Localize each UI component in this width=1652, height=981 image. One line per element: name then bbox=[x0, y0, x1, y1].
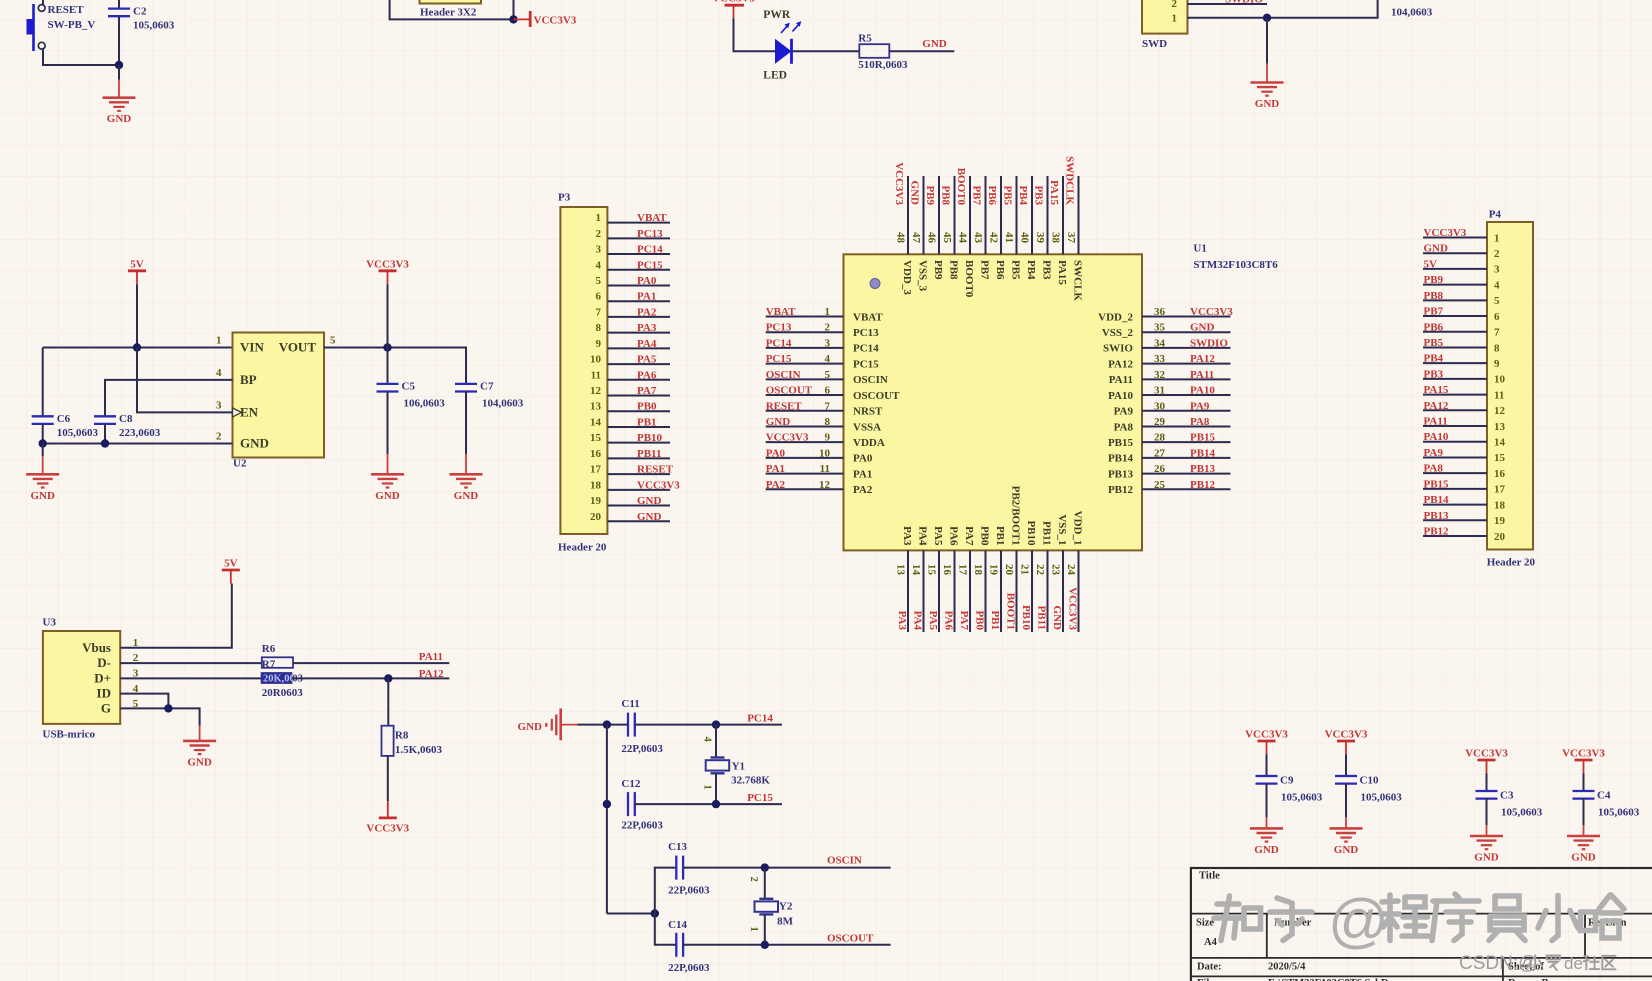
power VCC3V3 above C4 bbox=[1562, 748, 1605, 774]
svg-text:PA15: PA15 bbox=[1048, 180, 1060, 205]
svg-text:19: 19 bbox=[1494, 515, 1506, 527]
svg-text:de: de bbox=[1564, 954, 1583, 973]
svg-text:2020/5/4: 2020/5/4 bbox=[1268, 962, 1306, 973]
svg-text:22: 22 bbox=[1034, 564, 1046, 576]
svg-text:GND: GND bbox=[766, 416, 791, 428]
svg-text:105,0603: 105,0603 bbox=[1598, 806, 1640, 818]
U1 pin 4 PC15 wire + net label PC15 bbox=[766, 353, 879, 370]
svg-text:13: 13 bbox=[1494, 421, 1506, 433]
U1 pin 28 PB15 wire + net label PB15 bbox=[1108, 432, 1231, 449]
ground GND below USB bbox=[183, 726, 216, 769]
svg-text:PA11: PA11 bbox=[419, 651, 443, 663]
U1 pin 14 PA4 wire + net label PA4 bbox=[910, 526, 928, 632]
svg-text:Header 20: Header 20 bbox=[1487, 557, 1536, 569]
P3 pin 3 wire + net label PC14 bbox=[596, 244, 671, 256]
svg-text:PA11: PA11 bbox=[1109, 374, 1133, 386]
P3 pin 14 wire + net label PB1 bbox=[590, 416, 670, 428]
wire U3 ID to G bbox=[120, 694, 168, 709]
svg-text:PB2/BOOT1: PB2/BOOT1 bbox=[1010, 486, 1022, 546]
svg-text:VCC3V3: VCC3V3 bbox=[1465, 748, 1508, 760]
P4 pin 8 wire + net label PB5 bbox=[1423, 337, 1500, 354]
wire Header3X2 pin to VCC3V3 bbox=[390, 0, 514, 19]
U1 pin 47 VSS_3 wire + net label GND bbox=[909, 176, 929, 292]
svg-text:GND: GND bbox=[187, 756, 212, 768]
svg-text:C14: C14 bbox=[668, 919, 687, 931]
wire U3 G to GND bbox=[120, 708, 199, 725]
svg-text:17: 17 bbox=[590, 464, 602, 476]
svg-text:PA6: PA6 bbox=[948, 526, 960, 546]
P3 pin 9 wire + net label PA4 bbox=[596, 338, 671, 350]
node junction C2/switch bbox=[115, 61, 123, 69]
wire R7 to net PA12 bbox=[292, 677, 450, 679]
U1 pin 44 BOOT0 wire + net label BOOT0 bbox=[955, 168, 975, 298]
ground GND below C6 bbox=[26, 444, 59, 502]
U1 pin 6 OSCOUT wire + net label OSCOUT bbox=[766, 385, 900, 402]
capacitor C5 106,0603 bbox=[377, 348, 446, 455]
wire U3 D- to R6 bbox=[120, 662, 262, 664]
svg-text:VCC3V3: VCC3V3 bbox=[534, 15, 577, 27]
P4 pin 17 wire + net label PB15 bbox=[1423, 478, 1506, 495]
svg-text:OSCIN: OSCIN bbox=[827, 855, 862, 867]
node junction C12 left bbox=[603, 800, 611, 808]
net label PA11 bbox=[419, 651, 443, 663]
svg-text:45: 45 bbox=[941, 232, 953, 244]
svg-text:VOUT: VOUT bbox=[279, 340, 317, 355]
svg-text:VCC3V3: VCC3V3 bbox=[712, 0, 755, 5]
svg-text:9: 9 bbox=[825, 432, 831, 444]
U1 pin 20 PB2/BOOT1 wire + net label BOOT1 bbox=[1003, 486, 1021, 632]
svg-text:4: 4 bbox=[702, 737, 713, 743]
svg-text:20: 20 bbox=[1003, 564, 1015, 576]
svg-text:44: 44 bbox=[957, 232, 969, 244]
power VCC3V3 (right-pointing port) bbox=[514, 11, 577, 27]
wire RESET switch top pin bbox=[42, 0, 44, 5]
svg-text:D-: D- bbox=[97, 655, 111, 670]
svg-text:4: 4 bbox=[596, 259, 602, 271]
svg-text:GND: GND bbox=[454, 490, 479, 502]
svg-text:PB9: PB9 bbox=[932, 260, 944, 280]
svg-text:20: 20 bbox=[1494, 531, 1506, 543]
svg-text:R5: R5 bbox=[858, 33, 872, 45]
power VCC3V3 (USB pull-up, down-pointing) bbox=[366, 801, 409, 835]
svg-text:5: 5 bbox=[825, 369, 831, 381]
svg-text:OSCOUT: OSCOUT bbox=[766, 385, 813, 397]
P3 pin 16 wire + net label PB11 bbox=[590, 448, 670, 460]
svg-text:PB5: PB5 bbox=[1010, 260, 1022, 280]
svg-text:@: @ bbox=[1328, 887, 1389, 954]
svg-text:PA9: PA9 bbox=[1424, 447, 1444, 459]
U1 pin 3 PC14 wire + net label PC14 bbox=[766, 337, 879, 354]
svg-text:PB10: PB10 bbox=[1020, 605, 1032, 631]
svg-text:9: 9 bbox=[596, 338, 602, 350]
svg-text:GND: GND bbox=[1255, 98, 1280, 110]
svg-text:OSCOUT: OSCOUT bbox=[827, 933, 874, 945]
svg-text:PB10: PB10 bbox=[1025, 520, 1037, 546]
wire C14 branch bbox=[655, 914, 677, 945]
U1 pin 32 PA11 wire + net label PA11 bbox=[1109, 369, 1231, 386]
U1 pin 34 SWIO wire + net label SWDIO bbox=[1103, 337, 1230, 354]
U1 pin 38 PA15 wire + net label PA15 bbox=[1048, 176, 1068, 285]
svg-text:GND: GND bbox=[1424, 243, 1449, 255]
P3 pin 5 wire + net label PA0 bbox=[596, 275, 671, 287]
connector SWD header (clipped at top) bbox=[1142, 0, 1188, 50]
svg-text:PB12: PB12 bbox=[1108, 484, 1134, 496]
svg-text:PB6: PB6 bbox=[986, 185, 998, 205]
svg-text:PB4: PB4 bbox=[1017, 185, 1029, 205]
svg-text:PB10: PB10 bbox=[637, 432, 663, 444]
capacitor C10 105,0603 bbox=[1335, 755, 1402, 818]
node junction header/VCC3V3 bbox=[509, 15, 517, 23]
U1 pin 1 VBAT wire + net label VBAT bbox=[766, 306, 884, 323]
svg-text:PA4: PA4 bbox=[637, 338, 657, 350]
svg-text:PB7: PB7 bbox=[979, 260, 991, 280]
U3 pin number 5 bbox=[133, 698, 139, 710]
svg-text:GND: GND bbox=[1474, 852, 1499, 864]
svg-text:VCC3V3: VCC3V3 bbox=[366, 258, 409, 270]
power 5V (USB Vbus) bbox=[222, 558, 240, 584]
svg-text:PB1: PB1 bbox=[994, 526, 1006, 546]
svg-text:STM32F103C8T6: STM32F103C8T6 bbox=[1193, 259, 1278, 271]
svg-text:PB8: PB8 bbox=[940, 185, 952, 205]
ground GND below C4 bbox=[1567, 825, 1600, 864]
U1 pin 36 VDD_2 wire + net label VCC3V3 bbox=[1098, 306, 1233, 323]
svg-text:1: 1 bbox=[825, 306, 831, 318]
svg-text:Date:: Date: bbox=[1197, 962, 1222, 973]
resistor R6 bbox=[262, 643, 293, 671]
svg-text:PA0: PA0 bbox=[853, 453, 873, 465]
svg-text:22P,0603: 22P,0603 bbox=[621, 820, 663, 832]
svg-text:VBAT: VBAT bbox=[766, 306, 796, 318]
LED D1 PWR bbox=[763, 9, 801, 82]
svg-text:PA2: PA2 bbox=[766, 479, 786, 491]
U1 pin 45 PB8 wire + net label PB8 bbox=[940, 176, 960, 280]
U1 pin 17 PA7 wire + net label PA7 bbox=[957, 526, 975, 632]
svg-text:PA9: PA9 bbox=[1114, 406, 1134, 418]
svg-text:PA7: PA7 bbox=[637, 385, 657, 397]
svg-text:VCC3V3: VCC3V3 bbox=[893, 162, 905, 205]
svg-text:C12: C12 bbox=[621, 778, 640, 790]
svg-text:17: 17 bbox=[957, 564, 969, 576]
svg-text:24: 24 bbox=[1065, 564, 1077, 576]
svg-text:7: 7 bbox=[825, 400, 831, 412]
capacitor C3 105,0603 bbox=[1476, 774, 1543, 826]
svg-text:PB7: PB7 bbox=[1424, 306, 1444, 318]
U1 pin-1 marker bbox=[870, 279, 880, 289]
svg-text:GND: GND bbox=[1334, 844, 1359, 856]
svg-text:11: 11 bbox=[1494, 389, 1504, 401]
svg-text:C6: C6 bbox=[57, 413, 71, 425]
power VCC3V3 above C9 bbox=[1245, 729, 1288, 755]
svg-text:GND: GND bbox=[30, 490, 55, 502]
svg-text:GND: GND bbox=[637, 511, 662, 523]
connector P4 Header 20 bbox=[1487, 209, 1536, 569]
U1 pin 48 VDD_3 wire + net label VCC3V3 bbox=[893, 162, 913, 295]
svg-text:PB12: PB12 bbox=[1190, 479, 1216, 491]
svg-text:46: 46 bbox=[926, 232, 938, 244]
svg-text:OSCIN: OSCIN bbox=[853, 374, 888, 386]
svg-text:PC14: PC14 bbox=[853, 343, 879, 355]
svg-text:Y1: Y1 bbox=[732, 760, 745, 772]
svg-text:Vbus: Vbus bbox=[82, 640, 111, 655]
ground GND below C10 bbox=[1330, 817, 1363, 856]
node junction C13/Y2 bbox=[761, 863, 769, 871]
svg-text:5V: 5V bbox=[130, 258, 144, 270]
svg-text:PB0: PB0 bbox=[637, 401, 657, 413]
wire C13 branch bbox=[655, 868, 677, 914]
P4 pin 16 wire + net label PA8 bbox=[1423, 463, 1506, 480]
svg-text:PB14: PB14 bbox=[1424, 494, 1450, 506]
net label PA12 bbox=[419, 668, 444, 680]
svg-text:26: 26 bbox=[1154, 463, 1166, 475]
P4 pin 5 wire + net label PB8 bbox=[1423, 290, 1500, 307]
svg-text:PA9: PA9 bbox=[1190, 400, 1210, 412]
capacitor C7 104,0603 bbox=[455, 380, 524, 454]
svg-text:PB6: PB6 bbox=[1424, 321, 1444, 333]
svg-text:VDD_1: VDD_1 bbox=[1072, 511, 1084, 546]
U1 pin 41 PB5 wire + net label PB5 bbox=[1002, 176, 1022, 280]
svg-text:PA1: PA1 bbox=[637, 291, 656, 303]
svg-text:PC14: PC14 bbox=[747, 713, 773, 725]
svg-text:P4: P4 bbox=[1489, 209, 1502, 221]
U1 pin 2 PC13 wire + net label PC13 bbox=[766, 322, 879, 339]
svg-text:5: 5 bbox=[596, 275, 602, 287]
svg-text:2: 2 bbox=[825, 322, 831, 334]
svg-text:32: 32 bbox=[1154, 369, 1166, 381]
svg-text:PA3: PA3 bbox=[637, 322, 657, 334]
svg-text:17: 17 bbox=[1494, 484, 1506, 496]
svg-text:PC15: PC15 bbox=[853, 358, 879, 370]
U3 pin number 1 bbox=[133, 637, 139, 649]
net label GND (PWR LED) bbox=[922, 38, 947, 50]
svg-text:PC15: PC15 bbox=[747, 792, 773, 804]
U1 pin 24 VDD_1 wire + net label VCC3V3 bbox=[1065, 511, 1083, 632]
svg-text:PA3: PA3 bbox=[901, 526, 913, 546]
svg-text:GND: GND bbox=[1051, 606, 1063, 631]
svg-text:PA10: PA10 bbox=[1108, 390, 1133, 402]
U1 pin 13 PA3 wire + net label PA3 bbox=[895, 526, 913, 632]
svg-text:PA7: PA7 bbox=[958, 611, 970, 631]
svg-text:36: 36 bbox=[1154, 306, 1166, 318]
svg-text:18: 18 bbox=[1494, 499, 1506, 511]
svg-text:GND: GND bbox=[922, 38, 947, 50]
svg-text:SWIO: SWIO bbox=[1103, 343, 1133, 355]
svg-text:G: G bbox=[101, 701, 111, 716]
wire U2 VOUT rail bbox=[324, 348, 466, 384]
svg-text:PA6: PA6 bbox=[637, 369, 657, 381]
svg-text:2: 2 bbox=[596, 228, 602, 240]
svg-text:16: 16 bbox=[590, 448, 602, 460]
net label OSCOUT bbox=[827, 933, 874, 945]
U1 pin 19 PB1 wire + net label PB1 bbox=[988, 526, 1006, 632]
svg-text:20: 20 bbox=[590, 511, 602, 523]
P3 pin 8 wire + net label PA3 bbox=[596, 322, 671, 334]
svg-text:22P,0603: 22P,0603 bbox=[668, 962, 710, 974]
wire C13 to OSCIN bbox=[683, 867, 891, 869]
resistor R7 20K,0603 (selected/filled) bbox=[262, 673, 304, 699]
svg-text:19: 19 bbox=[988, 564, 1000, 576]
svg-text:4: 4 bbox=[825, 353, 831, 365]
node junction C13/C14 rail bbox=[651, 909, 659, 917]
svg-text:2: 2 bbox=[1172, 0, 1178, 10]
P4 pin 13 wire + net label PA11 bbox=[1423, 416, 1506, 433]
svg-text:BP: BP bbox=[240, 372, 257, 387]
svg-text:14: 14 bbox=[590, 416, 602, 428]
svg-text:VDD_3: VDD_3 bbox=[901, 260, 913, 295]
svg-text:SWDCLK: SWDCLK bbox=[1064, 156, 1076, 205]
svg-text:VBAT: VBAT bbox=[853, 311, 883, 323]
svg-text:PB0: PB0 bbox=[974, 610, 986, 630]
svg-text:2: 2 bbox=[1494, 248, 1500, 260]
ground GND below C5 bbox=[371, 454, 404, 502]
capacitor C8 223,0603 bbox=[94, 413, 161, 444]
P4 pin 1 wire + net label VCC3V3 bbox=[1423, 227, 1500, 244]
svg-text:BOOT0: BOOT0 bbox=[963, 260, 975, 298]
svg-text:PB15: PB15 bbox=[1424, 478, 1450, 490]
svg-text:VCC3V3: VCC3V3 bbox=[1067, 587, 1079, 630]
wire C12 rail vertical bbox=[606, 725, 608, 914]
svg-text:OSCOUT: OSCOUT bbox=[853, 390, 900, 402]
svg-text:1.5K,0603: 1.5K,0603 bbox=[395, 744, 443, 756]
svg-text:USB-mrico: USB-mrico bbox=[43, 729, 96, 741]
svg-text:29: 29 bbox=[1154, 416, 1166, 428]
title block texts bbox=[1196, 871, 1627, 981]
svg-text:C9: C9 bbox=[1280, 774, 1294, 786]
node junction C14/Y2 bbox=[761, 941, 769, 949]
svg-text:40: 40 bbox=[1019, 232, 1031, 244]
U1 pin 7 NRST wire + net label RESET bbox=[766, 400, 883, 417]
svg-text:PA2: PA2 bbox=[853, 484, 873, 496]
svg-text:8: 8 bbox=[825, 416, 831, 428]
svg-text:VSS_2: VSS_2 bbox=[1102, 327, 1134, 339]
svg-text:7: 7 bbox=[1494, 327, 1500, 339]
connector P? Header 3X2 (clipped at top) bbox=[420, 0, 482, 18]
svg-text:106,0603: 106,0603 bbox=[404, 397, 446, 409]
wire U2 EN to 5V node bbox=[137, 348, 233, 413]
svg-text:C8: C8 bbox=[119, 413, 133, 425]
svg-text:PB13: PB13 bbox=[1424, 510, 1450, 522]
U1 pin 23 VSS_1 wire + net label GND bbox=[1050, 514, 1068, 632]
svg-text:1: 1 bbox=[1494, 232, 1500, 244]
capacitor C6 105,0603 bbox=[32, 348, 99, 444]
svg-text:12: 12 bbox=[590, 385, 602, 397]
svg-text:VDDA: VDDA bbox=[853, 437, 885, 449]
node junction 5V/VIN/EN bbox=[133, 343, 141, 351]
svg-text:LED: LED bbox=[763, 70, 787, 82]
wire U2 BP to C8 bbox=[105, 380, 233, 416]
wire C11 to PC14 bbox=[635, 724, 782, 726]
U1 pin 12 PA2 wire + net label PA2 bbox=[766, 479, 873, 496]
svg-text:VCC3V3: VCC3V3 bbox=[366, 823, 409, 835]
svg-text:PB4: PB4 bbox=[1424, 353, 1444, 365]
node junction C11 left bbox=[603, 720, 611, 728]
svg-text:104,0603: 104,0603 bbox=[1391, 7, 1433, 19]
P4 pin 9 wire + net label PB4 bbox=[1423, 353, 1500, 370]
svg-text:PB9: PB9 bbox=[924, 185, 936, 205]
svg-text:18: 18 bbox=[590, 479, 602, 491]
U1 pin 29 PA8 wire + net label PA8 bbox=[1114, 416, 1231, 433]
U1 pin 16 PA6 wire + net label PA6 bbox=[941, 526, 959, 632]
svg-text:GND: GND bbox=[637, 495, 662, 507]
svg-text:PB1: PB1 bbox=[637, 416, 657, 428]
svg-text:2: 2 bbox=[216, 431, 222, 443]
svg-text:5: 5 bbox=[1494, 295, 1500, 307]
svg-text:VCC3V3: VCC3V3 bbox=[766, 432, 809, 444]
svg-text:1: 1 bbox=[702, 785, 713, 790]
svg-text:20K,06: 20K,06 bbox=[263, 673, 295, 684]
capacitor C12 22P,0603 bbox=[621, 778, 663, 832]
svg-text:41: 41 bbox=[1003, 232, 1015, 243]
svg-text:3: 3 bbox=[1494, 264, 1500, 276]
svg-text:RESET: RESET bbox=[637, 464, 674, 476]
svg-text:PB4: PB4 bbox=[1025, 260, 1037, 280]
svg-text:R8: R8 bbox=[395, 730, 409, 742]
svg-text:PA8: PA8 bbox=[1190, 416, 1210, 428]
capacitor C11 22P,0603 bbox=[621, 698, 663, 755]
P4 pin 20 wire + net label PB12 bbox=[1423, 525, 1506, 542]
ground GND (left-pointing) for crystals bbox=[518, 709, 578, 741]
svg-text:PB15: PB15 bbox=[1190, 432, 1216, 444]
svg-text:C4: C4 bbox=[1597, 789, 1611, 801]
svg-text:GND: GND bbox=[909, 181, 921, 206]
svg-text:SWDIO: SWDIO bbox=[1190, 337, 1228, 349]
P3 pin 18 wire + net label VCC3V3 bbox=[590, 479, 680, 491]
U1 pin 11 PA1 wire + net label PA1 bbox=[766, 463, 873, 480]
U1 pin 26 PB13 wire + net label PB13 bbox=[1108, 463, 1231, 480]
svg-text:SWDIO: SWDIO bbox=[1225, 0, 1263, 5]
svg-text:PA15: PA15 bbox=[1056, 260, 1068, 285]
svg-text:PB13: PB13 bbox=[1108, 468, 1134, 480]
pin number 4 U2 BP bbox=[216, 367, 222, 379]
svg-text:PA5: PA5 bbox=[927, 611, 939, 631]
svg-text:PC14: PC14 bbox=[766, 337, 792, 349]
power 5V input bbox=[128, 258, 146, 284]
pin number 3 U2 EN bbox=[216, 399, 222, 411]
svg-text:15: 15 bbox=[1494, 452, 1506, 464]
P3 pin 13 wire + net label PB0 bbox=[590, 401, 670, 413]
U1 pin 25 PB12 wire + net label PB12 bbox=[1108, 479, 1231, 496]
node junction C8/GND rail bbox=[101, 439, 109, 447]
svg-text:PB3: PB3 bbox=[1033, 185, 1045, 205]
svg-text:105,0603: 105,0603 bbox=[1501, 806, 1543, 818]
svg-text:PB1: PB1 bbox=[989, 610, 1001, 630]
svg-text:3: 3 bbox=[216, 399, 222, 411]
svg-text:105,0603: 105,0603 bbox=[1281, 791, 1323, 803]
U3 pin number 3 bbox=[133, 668, 139, 680]
wire VIN rail to U2 pin1 bbox=[43, 347, 233, 349]
U1 pin 18 PB0 wire + net label PB0 bbox=[972, 526, 990, 632]
svg-text:C5: C5 bbox=[402, 380, 416, 392]
svg-text:PB11: PB11 bbox=[1041, 521, 1053, 545]
svg-text:PA2: PA2 bbox=[637, 306, 657, 318]
svg-text:31: 31 bbox=[1154, 385, 1165, 397]
power VCC3V3 above LED (text clipped) bbox=[712, 0, 755, 18]
ground GND below SWD bbox=[1251, 18, 1284, 110]
U1 pin 9 VDDA wire + net label VCC3V3 bbox=[766, 432, 885, 449]
U1 pin 46 PB9 wire + net label PB9 bbox=[924, 176, 944, 280]
svg-text:PA12: PA12 bbox=[1190, 353, 1215, 365]
U1 pin 40 PB4 wire + net label PB4 bbox=[1017, 176, 1037, 280]
svg-text:PB13: PB13 bbox=[1190, 463, 1216, 475]
svg-text:PA5: PA5 bbox=[637, 354, 657, 366]
P3 pin 10 wire + net label PA5 bbox=[590, 354, 670, 366]
svg-text:PA4: PA4 bbox=[912, 611, 924, 631]
ground GND below C2 bbox=[103, 65, 136, 125]
svg-text:U2: U2 bbox=[233, 458, 247, 470]
svg-text:PA6: PA6 bbox=[943, 611, 955, 631]
svg-text:PB5: PB5 bbox=[1424, 337, 1444, 349]
connector P3 Header 20 bbox=[558, 192, 607, 554]
svg-text:PA5: PA5 bbox=[932, 526, 944, 546]
